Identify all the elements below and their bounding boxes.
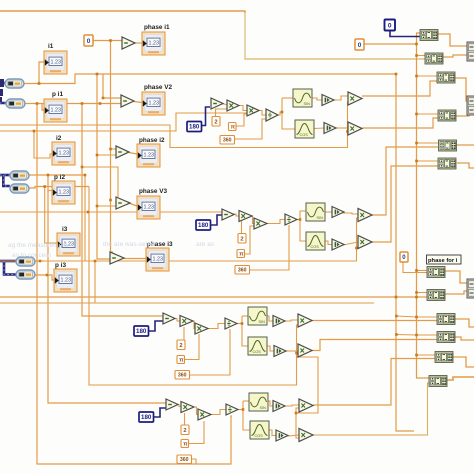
row4 multiply by pi — [195, 323, 208, 334]
svg-text:360: 360 — [238, 268, 247, 274]
wire r5 sin out — [268, 401, 273, 406]
V2 cos multiply — [348, 122, 362, 135]
svg-text:1.23: 1.23 — [59, 190, 70, 196]
wire r4 t4 out — [235, 323, 242, 325]
wire V2 to mult1 — [334, 96, 348, 100]
svg-text:p i2: p i2 — [54, 174, 65, 181]
wire V3 to mult1 — [343, 213, 358, 214]
wire junction — [47, 174, 50, 177]
svg-text:COS: COS — [253, 350, 262, 354]
V2 sin multiply — [348, 92, 362, 105]
index array node P5 (i3) — [16, 257, 35, 266]
constant 180 C — [134, 326, 149, 336]
constant pi D — [181, 440, 189, 448]
wire junction — [415, 296, 418, 299]
constant 2 B — [238, 234, 246, 244]
svg-text:180: 180 — [198, 222, 209, 229]
wire V2 t2-t3 — [239, 106, 247, 111]
wire r5 sin result to N11 bottom — [313, 359, 436, 406]
wire V3 t3-t4 — [266, 220, 285, 224]
array node N5 — [439, 140, 457, 151]
svg-text:COS: COS — [300, 133, 309, 137]
wire 180 A to subtract — [201, 107, 210, 126]
wire V3 branch sin — [300, 210, 306, 212]
wire cluster branch to pill P6 — [4, 261, 16, 275]
wire phase i2 op output — [129, 153, 137, 155]
svg-text:i1: i1 — [48, 43, 54, 50]
wire V3 sin result to N5 bottom — [371, 147, 439, 215]
wire junction — [43, 185, 46, 188]
wire r5 cos out — [269, 430, 276, 436]
constant pi B — [237, 250, 245, 258]
wire second phase trunk vertical — [97, 74, 110, 259]
wire 2 C to multiply — [181, 327, 184, 340]
wire long route to row5 subtract — [48, 175, 166, 403]
numeric indicator p i2 — [52, 174, 75, 204]
wire V3 cos out — [325, 241, 332, 245]
V3 sin scale op — [332, 207, 344, 218]
wire N9 output to right edge — [455, 319, 474, 327]
wire cluster branch to pill P4 — [3, 175, 10, 186]
svg-text:phase i2: phase i2 — [139, 137, 165, 144]
array node N10 — [437, 332, 455, 343]
svg-text:1.23: 1.23 — [144, 205, 155, 211]
wire junction — [395, 296, 398, 299]
edge build array E3 — [467, 279, 474, 298]
array node N8 — [427, 290, 445, 301]
row4 cosine block — [248, 337, 267, 355]
constant 2 D — [181, 425, 189, 435]
numeric indicator p i3 — [54, 262, 77, 292]
phase i2 subtract op — [116, 146, 129, 158]
wire N6 output to right edge — [457, 163, 474, 168]
svg-text:1.23: 1.23 — [51, 108, 62, 114]
wire pale overlay — [245, 13, 425, 59]
array node N12 — [429, 376, 447, 387]
row5 cos multiply — [299, 429, 313, 442]
array node N3 — [437, 72, 455, 83]
row4 sin multiply — [298, 314, 312, 327]
wire amplitude feed V3 — [0, 218, 358, 261]
array node N1 — [420, 30, 438, 41]
V3 cos scale op — [332, 239, 344, 250]
wire long line to N8 — [0, 296, 428, 298]
svg-text:are as: are as — [196, 241, 215, 248]
wire i2 value — [29, 174, 85, 176]
svg-text:360: 360 — [178, 373, 187, 379]
wire r5 t1-t2 — [177, 405, 181, 407]
V3 cos multiply — [358, 236, 372, 249]
row4 cos multiply — [298, 344, 312, 357]
wire long line bottom left — [0, 302, 374, 304]
wire V2 branch to sin — [282, 97, 293, 99]
svg-text:2: 2 — [183, 428, 186, 434]
wire junction — [415, 354, 418, 357]
V3 sin multiply — [358, 209, 372, 222]
constant 360 B — [235, 266, 250, 275]
numeric indicator i3 — [57, 226, 80, 256]
constant 180 D — [139, 412, 154, 422]
wire branch to i1 indicator — [39, 62, 45, 84]
wire V2 cos out — [314, 127, 324, 130]
constant 180 A — [187, 122, 202, 132]
wire junction — [102, 97, 105, 100]
free label phase for i — [427, 255, 462, 264]
row4 sine block — [248, 307, 267, 325]
svg-text:π: π — [239, 252, 244, 258]
wire 180 B to subtract — [211, 215, 222, 225]
row5 multiply by pi — [198, 409, 211, 420]
wire r5 t4 out — [238, 409, 243, 411]
wire 2 A to multiply — [216, 109, 228, 117]
row5 divide by 360 — [226, 404, 238, 415]
wire vertical x85 — [84, 175, 86, 261]
wire 360 B to divide — [249, 225, 289, 270]
wire N5 output to right edge — [457, 144, 474, 146]
constant pi C — [177, 356, 185, 364]
wire junction — [38, 82, 41, 85]
wire V2 to mult2 — [336, 127, 348, 129]
wire amplitude tap V3 cos multiply — [357, 247, 360, 249]
svg-text:i3: i3 — [62, 226, 68, 233]
cluster terminal block (clipped at left edge) — [0, 79, 4, 102]
row5 sin multiply — [299, 399, 313, 412]
V2 sine block — [293, 89, 312, 107]
svg-text:SIN: SIN — [259, 320, 266, 324]
wire amplitude tap row4 cos multiply — [297, 352, 300, 354]
constant 0 (phase for i) — [400, 252, 408, 262]
wire V2 t3-t4 — [259, 111, 266, 116]
wire trunk tap to N6 — [417, 160, 440, 162]
row5 sin scale op — [273, 401, 285, 412]
svg-text:1.23: 1.23 — [59, 151, 70, 157]
phase i3 subtract op — [110, 252, 124, 264]
wire V3 t1-t2 — [233, 214, 239, 216]
row4 subtract 180 — [163, 313, 175, 324]
wire phase V2 op output — [134, 102, 142, 103]
numeric indicator phase V2 — [142, 84, 173, 115]
row5 subtract 180 — [166, 399, 178, 410]
svg-text:2: 2 — [214, 119, 217, 125]
svg-text:0: 0 — [388, 22, 392, 29]
wire junction — [46, 274, 49, 277]
phase V2 subtract op — [121, 95, 134, 107]
watermark text (faint) — [8, 241, 215, 259]
wire 360 A to divide — [234, 119, 266, 139]
V2 cos scale op — [324, 123, 336, 134]
svg-text:phase i1: phase i1 — [144, 24, 170, 31]
constant 0 (array init) — [355, 39, 364, 50]
wire cluster input to pill P3 — [0, 174, 10, 177]
wire trunk tap to N10 — [417, 334, 439, 336]
V3 multiply by 2 — [239, 211, 252, 222]
svg-text:phase for i: phase for i — [428, 258, 458, 264]
wire V3 sin out — [325, 211, 332, 213]
wire amplitude feed row5 — [296, 357, 318, 413]
row4 multiply by 2 — [180, 316, 193, 327]
wire r5 to mult1 — [286, 405, 299, 406]
wire junction — [81, 166, 84, 169]
svg-text:π: π — [179, 358, 184, 364]
V2 cosine block — [295, 120, 314, 138]
wire amplitude tap V2 cos multiply — [348, 131, 351, 133]
wire tap to phase i2 op lower — [97, 154, 116, 156]
wire junction — [395, 73, 398, 76]
wire junction — [415, 75, 418, 78]
row5 cos scale op — [276, 430, 288, 441]
wire constant 0 to phase i1 op — [93, 40, 122, 42]
wire V3 t2-t3 — [251, 216, 254, 224]
index array node P6 (p i3) — [16, 270, 35, 279]
wire V3 to mult2 — [343, 242, 358, 245]
wire tap to phase V2 subtract top — [103, 74, 121, 98]
wire junction — [109, 148, 112, 151]
wire trunk crosslink A — [396, 316, 416, 317]
array node N7 — [427, 267, 445, 278]
wire phase i3 op output — [124, 258, 146, 260]
wire trunk tap to N5 — [417, 142, 440, 144]
V2 multiply by 2 — [227, 100, 239, 111]
wire N10 output to right edge — [455, 337, 474, 340]
row4 divide by 360 — [225, 318, 237, 329]
wire p i1 value to phase V2 subtract — [25, 103, 121, 105]
svg-text:180: 180 — [141, 414, 152, 421]
wire main right trunk — [417, 44, 431, 378]
wire N2 output to edge build array — [441, 55, 467, 57]
V3 cosine block — [306, 232, 325, 250]
wire p i3 value to indicator — [35, 275, 54, 280]
constant 360 D — [177, 455, 192, 464]
wire junction — [39, 260, 42, 263]
constant 0 (top left) — [84, 35, 93, 46]
wire r4 to mult1 — [284, 320, 298, 321]
row5 cosine block — [250, 421, 269, 439]
constant pi A — [229, 123, 237, 131]
wire cluster input to pill P2 — [0, 102, 25, 105]
index array node P3 (i2) — [10, 171, 29, 180]
wire r4 sin result to N9 bottom — [311, 320, 438, 322]
wire pi B to multiply — [244, 226, 254, 254]
phase V3 subtract op — [116, 197, 130, 209]
wire constant 0 to N7 index input — [403, 262, 428, 273]
wire amplitude feed row4 — [89, 187, 298, 386]
V2 divide by 360 — [266, 109, 278, 121]
constant 180 B — [196, 220, 211, 230]
wire junction — [395, 315, 398, 318]
wire junction — [415, 113, 418, 116]
wire branch down to i3 indicator — [45, 187, 57, 244]
wire junction — [415, 160, 418, 163]
svg-text:180: 180 — [189, 124, 200, 131]
svg-text:1.23: 1.23 — [144, 153, 155, 159]
wire phase V3 op output — [130, 204, 137, 207]
wire junction — [84, 174, 87, 177]
index array node P2 (p i1) — [6, 99, 25, 108]
wire V2 t1-t2 — [223, 103, 227, 106]
wire junction — [96, 73, 99, 76]
row5 sine block — [249, 393, 268, 411]
wire junction — [415, 316, 418, 319]
wire N4 output to edge build array E2 — [456, 110, 469, 116]
wire amplitude feed V2 — [0, 102, 349, 148]
wire N12 output to right edge — [447, 377, 474, 380]
wire junction — [242, 408, 245, 411]
wire 2 D to multiply — [184, 413, 186, 425]
wire r4 t2-t3 — [193, 321, 195, 329]
svg-text:180: 180 — [136, 328, 147, 335]
numeric indicator phase i3 — [146, 241, 173, 271]
wire r4 to mult2 — [286, 350, 298, 352]
svg-text:1.23: 1.23 — [153, 257, 164, 263]
svg-text:p i3: p i3 — [55, 262, 66, 269]
wire r4 t1-t2 — [174, 319, 180, 322]
wire trunk tap to N8 — [417, 292, 429, 294]
wire tap to phase i2 op — [111, 148, 117, 150]
wire r5 cos result to N12 bottom — [313, 383, 430, 435]
wire N1 output to edge build array — [438, 34, 467, 46]
wire cluster input to pill P1 — [0, 82, 24, 85]
svg-text:as to concern: as to concern — [12, 252, 51, 259]
wire junction — [295, 412, 298, 415]
V2 sin scale op — [322, 95, 334, 106]
wire 2 B to multiply — [239, 220, 242, 234]
svg-text:p i1: p i1 — [52, 91, 63, 98]
wire V2 t4 out — [278, 112, 282, 115]
wire V2 cos result to N4 bottom — [362, 118, 439, 128]
wire N7 output to edge build array E3 — [445, 271, 467, 283]
constant 2 C — [177, 340, 185, 350]
wire trunk tap to N7 — [417, 270, 429, 272]
wire 180 C to subtract — [149, 321, 163, 331]
svg-text:1.23: 1.23 — [149, 101, 160, 107]
wire 360 C to divide — [189, 329, 230, 375]
wire junction — [415, 269, 418, 272]
wire trunk tap to N3 — [417, 75, 439, 77]
edge build array E2 — [467, 96, 474, 115]
wire p i2 value — [29, 187, 89, 189]
wire junction — [99, 102, 102, 105]
wire r4 branch sin — [242, 315, 248, 317]
wire junction — [109, 199, 112, 202]
svg-text:ag the measurement: ag the measurement — [8, 242, 68, 249]
row4 cos scale op — [274, 346, 286, 357]
svg-text:2: 2 — [179, 343, 182, 349]
constant 2 A — [212, 117, 220, 127]
wire branch to phase V3 op — [82, 167, 118, 197]
I32 constant 0 — [385, 20, 396, 31]
wire r4 cos result to N10 bottom — [312, 340, 438, 351]
wire junction — [299, 218, 302, 221]
svg-text:1.23: 1.23 — [51, 60, 62, 66]
numeric indicator phase V3 — [137, 188, 168, 219]
wire junction — [109, 39, 112, 42]
V3 multiply by pi — [254, 218, 267, 229]
index array node P1 (i1) — [5, 79, 24, 88]
svg-text:COS: COS — [311, 245, 320, 249]
wire branch to i2 indicator — [34, 131, 52, 158]
wire trunk crosslink B — [396, 334, 416, 337]
wire junction — [36, 102, 39, 105]
svg-text:i2: i2 — [56, 135, 62, 142]
wire r4 t3-t4 — [208, 324, 225, 329]
edge build array E1 — [467, 42, 474, 61]
wire phase trunk vertical — [111, 40, 114, 252]
wire junction — [415, 142, 418, 145]
wire trunk tap to N4 — [417, 113, 440, 115]
array node N11 — [435, 352, 453, 363]
array node N4 — [438, 110, 456, 121]
wire 360 D join — [191, 459, 196, 464]
wire long route to row4 subtract — [82, 104, 163, 317]
row4 sin scale op — [273, 316, 285, 327]
wire V2 sin result to N4... N3 bottom — [362, 81, 438, 96]
svg-text:1.23: 1.23 — [149, 41, 160, 47]
wire 180 D to subtract — [154, 408, 166, 417]
wire junction — [81, 102, 84, 105]
svg-text:π: π — [231, 125, 236, 131]
wire r4 branch cos — [242, 316, 248, 346]
svg-text:COS: COS — [255, 434, 264, 438]
wire junction — [295, 352, 298, 355]
wire cluster input to pill P5 — [0, 260, 16, 263]
svg-text:0: 0 — [358, 42, 362, 49]
svg-text:π: π — [183, 442, 188, 448]
wire i1 value to array node N2 — [0, 11, 427, 59]
wire V3 cos result to N6 bottom — [371, 166, 439, 242]
wire long line to V3 subtract — [0, 211, 222, 213]
svg-text:360: 360 — [180, 457, 189, 463]
wire r5 t3-t4 — [211, 410, 226, 415]
wire i3 pill output joins line — [35, 260, 44, 262]
wire amplitude tap row5 cos multiply — [296, 413, 299, 438]
numeric indicator phase i1 — [142, 24, 170, 55]
wire N8 output to edge build array E3 — [445, 291, 467, 294]
wire pi A to multiply — [236, 114, 247, 126]
svg-text:SIN: SIN — [304, 102, 311, 106]
constant 360 A — [220, 136, 235, 145]
index array node P4 (p i2) — [10, 184, 29, 193]
constant 360 C — [175, 371, 190, 380]
wire junction — [415, 334, 418, 337]
wire junction — [395, 333, 398, 336]
wire junction — [96, 154, 99, 157]
wire junction — [96, 205, 99, 208]
wire V3 t4 out — [294, 219, 300, 221]
wire branch to p i1 indicator — [42, 104, 45, 111]
row5 multiply by 2 — [181, 402, 194, 413]
wire long line B — [0, 113, 252, 131]
V3 subtract 180 — [222, 209, 234, 220]
wire r4 cos out — [267, 346, 274, 351]
wire junction — [415, 54, 418, 57]
array node N6 — [438, 158, 456, 169]
wire r5 cos overlay — [313, 383, 430, 435]
wire r5 t2-t3 — [195, 407, 198, 415]
svg-text:SIN: SIN — [317, 216, 324, 220]
wire V2 sin out — [312, 98, 322, 100]
wire junction — [415, 43, 418, 46]
wire r5 to mult2 — [288, 435, 299, 436]
wire junction — [346, 130, 349, 133]
wire p i1 long route to bottom row — [37, 104, 232, 465]
wire route join — [94, 261, 96, 303]
wire phase i1 op output — [135, 42, 142, 44]
wire N3 output to edge build array E2 — [455, 78, 468, 101]
wire tap to phase V3 op lower — [97, 205, 116, 207]
wire V2 branch to cos — [282, 98, 295, 129]
wire trunk tap to N9 — [417, 316, 439, 318]
wire junction — [415, 291, 418, 294]
